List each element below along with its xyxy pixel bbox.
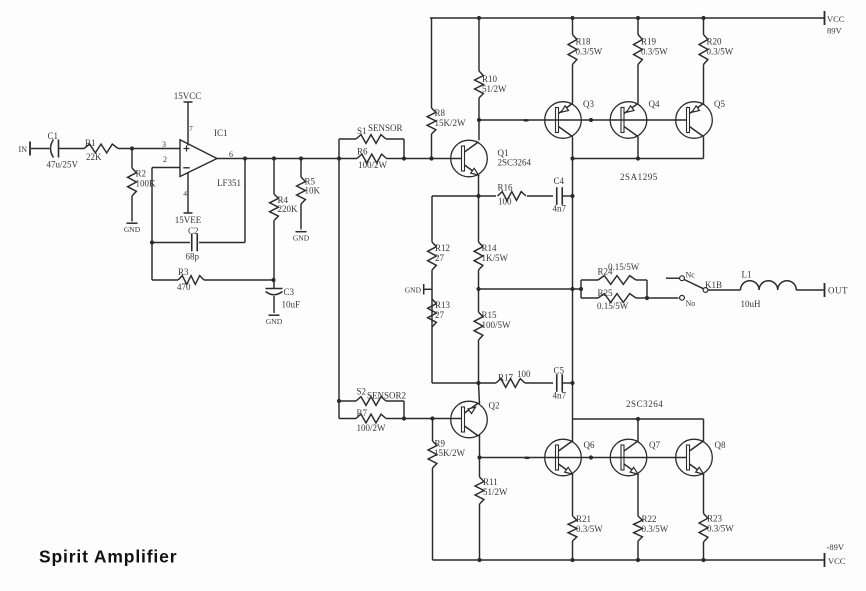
- node rail R11: [477, 558, 481, 562]
- svg-text:GND: GND: [405, 286, 422, 295]
- resistor R19: [634, 18, 669, 103]
- svg-text:100/2W: 100/2W: [357, 423, 387, 433]
- svg-text:15VCC: 15VCC: [174, 91, 202, 101]
- svg-text:Q4: Q4: [649, 99, 660, 109]
- wire Q1 emitter: [478, 175, 480, 196]
- svg-text:100/5W: 100/5W: [482, 320, 512, 330]
- wire: [59, 148, 85, 150]
- ground: [124, 223, 141, 234]
- svg-text:27: 27: [435, 310, 445, 320]
- svg-text:2: 2: [163, 155, 167, 164]
- resistor R23: [699, 474, 734, 560]
- node base: [589, 455, 593, 459]
- svg-text:47u/25V: 47u/25V: [47, 160, 79, 170]
- input terminal IN: [19, 142, 30, 156]
- svg-text:51/2W: 51/2W: [483, 487, 508, 497]
- node feedback: [150, 240, 154, 244]
- svg-text:Q8: Q8: [715, 440, 726, 450]
- resistor R1: [84, 138, 118, 162]
- svg-text:15K/2W: 15K/2W: [435, 118, 467, 128]
- node C4: [570, 194, 574, 198]
- svg-text:R22: R22: [642, 514, 657, 524]
- transistor Q4: [610, 99, 660, 138]
- resistor R9: [428, 419, 465, 561]
- resistor R8: [427, 18, 466, 159]
- wire Q2 emitter: [479, 383, 480, 404]
- pin 7 wire: [184, 102, 194, 146]
- node rail R20: [701, 16, 705, 20]
- svg-text:SENSOR2: SENSOR2: [367, 391, 406, 401]
- inductor L1: [741, 270, 797, 310]
- ground tap: [405, 270, 432, 383]
- op-amp U1 IC1: [180, 128, 241, 188]
- svg-text:0.15/5W: 0.15/5W: [608, 262, 640, 272]
- node R8 base: [429, 156, 433, 160]
- capacitor C1: [47, 131, 79, 170]
- svg-text:2SC3264: 2SC3264: [498, 158, 532, 168]
- svg-text:R12: R12: [435, 243, 450, 253]
- wire: [479, 382, 497, 384]
- node bus R22: [636, 417, 640, 421]
- wire sensor column: [338, 159, 340, 402]
- resistor R20: [699, 18, 734, 103]
- node collector base: [477, 118, 481, 122]
- svg-text:4n7: 4n7: [553, 204, 567, 214]
- svg-text:R16: R16: [498, 183, 514, 193]
- svg-text:C2: C2: [188, 226, 199, 236]
- capacitor C3: [266, 280, 301, 313]
- svg-text:7: 7: [189, 124, 193, 133]
- wire Q5 collector: [703, 137, 705, 159]
- svg-text:10K: 10K: [305, 186, 321, 196]
- svg-text:3: 3: [162, 140, 166, 149]
- resistor R3: [152, 267, 274, 292]
- node drive mid: [476, 287, 480, 291]
- wire: [527, 195, 553, 197]
- wire mid column: [572, 159, 574, 420]
- svg-text:No: No: [686, 299, 696, 308]
- resistor R12: [428, 196, 450, 270]
- wire lower bus: [573, 418, 704, 420]
- wire: [432, 382, 479, 384]
- svg-text:GND: GND: [266, 317, 283, 326]
- wire: [432, 195, 496, 197]
- svg-text:Q6: Q6: [584, 440, 595, 450]
- wire Q3 collector: [572, 137, 574, 159]
- svg-text:6: 6: [229, 150, 233, 159]
- node C5: [570, 381, 574, 385]
- terminal VCC -89V: [825, 542, 846, 567]
- svg-text:R7: R7: [357, 408, 368, 418]
- node box left: [579, 287, 583, 291]
- svg-text:VCC: VCC: [828, 556, 846, 566]
- node bus Q3: [570, 156, 574, 160]
- svg-text:470: 470: [177, 282, 191, 292]
- svg-text:0.3/5W: 0.3/5W: [576, 524, 603, 534]
- capacitor C5: [553, 366, 567, 401]
- wire -VCC rail: [433, 559, 825, 561]
- resistor R7: [339, 401, 404, 433]
- svg-text:Nc: Nc: [686, 271, 696, 280]
- svg-text:SENSOR: SENSOR: [368, 123, 403, 133]
- svg-text:22K: 22K: [86, 152, 102, 162]
- resistor R18: [568, 18, 603, 103]
- svg-text:Q2: Q2: [489, 401, 500, 411]
- wire Q8 collector: [703, 419, 705, 441]
- wire Q7 collector: [637, 419, 639, 441]
- wire output node: [479, 288, 582, 290]
- junction mark: [523, 119, 529, 122]
- switch K1B: [666, 271, 722, 309]
- resistor R10: [475, 18, 507, 140]
- resistor R4: [270, 159, 298, 281]
- ground: [266, 315, 283, 326]
- svg-text:4n7: 4n7: [553, 391, 567, 401]
- capacitor C4: [553, 176, 567, 214]
- svg-text:2SC3264: 2SC3264: [626, 399, 663, 409]
- svg-text:15K/2W: 15K/2W: [434, 448, 466, 458]
- svg-text:L1: L1: [742, 270, 752, 280]
- svg-text:R8: R8: [435, 108, 446, 118]
- resistor R17: [496, 369, 531, 387]
- svg-text:R3: R3: [178, 267, 189, 277]
- node R3 R4 C3: [271, 278, 275, 282]
- wire: [796, 289, 823, 291]
- wire base Q3 Q4 Q5: [479, 119, 687, 121]
- node box right: [645, 296, 649, 300]
- svg-text:LF351: LF351: [217, 178, 241, 188]
- wire: [562, 382, 573, 384]
- resistor R22: [634, 474, 669, 560]
- svg-text:R1: R1: [85, 138, 96, 148]
- node R15 R17: [476, 381, 480, 385]
- svg-text:S2: S2: [357, 387, 367, 397]
- svg-text:4: 4: [183, 189, 187, 198]
- svg-text:Q5: Q5: [714, 99, 725, 109]
- power 15VCC: [174, 91, 202, 101]
- svg-text:R10: R10: [482, 74, 498, 84]
- capacitor C2: [186, 226, 200, 262]
- svg-text:10uH: 10uH: [741, 299, 762, 309]
- node Q2 collector: [477, 455, 481, 459]
- wire Q6 collector: [572, 419, 574, 441]
- svg-text:68p: 68p: [186, 252, 200, 262]
- svg-text:100: 100: [498, 197, 512, 207]
- svg-text:R14: R14: [482, 243, 498, 253]
- svg-text:VCC: VCC: [827, 14, 845, 24]
- pin 6: [229, 150, 233, 159]
- wire: [199, 159, 245, 243]
- wire VCC rail: [430, 17, 824, 19]
- svg-text:27: 27: [435, 253, 445, 263]
- svg-text:OUT: OUT: [828, 286, 848, 296]
- resistor R16: [498, 183, 527, 207]
- switch S2 SENSOR2: [339, 387, 406, 419]
- svg-text:C4: C4: [554, 176, 565, 186]
- svg-text:Q1: Q1: [498, 148, 509, 158]
- svg-text:51/2W: 51/2W: [482, 84, 507, 94]
- wire Q2 collector: [479, 434, 481, 457]
- svg-text:R11: R11: [483, 477, 498, 487]
- wire: [31, 148, 50, 150]
- svg-text:R15: R15: [482, 310, 498, 320]
- transistor Q5: [676, 99, 726, 138]
- svg-text:10uF: 10uF: [282, 300, 301, 310]
- label 2SC3264: [626, 399, 663, 409]
- node rail R23: [701, 558, 705, 562]
- svg-text:0.3/5W: 0.3/5W: [642, 524, 669, 534]
- resistor R24: [581, 262, 647, 298]
- node S1 right: [402, 156, 406, 160]
- node rail R22: [636, 558, 640, 562]
- svg-text:-89V: -89V: [827, 542, 845, 552]
- transistor Q3: [545, 99, 595, 138]
- svg-text:Q7: Q7: [649, 440, 660, 450]
- wire Q2 base: [404, 418, 462, 420]
- svg-text:GND: GND: [293, 234, 310, 243]
- node base: [589, 118, 593, 122]
- svg-text:220K: 220K: [278, 204, 299, 214]
- node rail R18: [570, 16, 574, 20]
- svg-text:Q3: Q3: [583, 99, 594, 109]
- svg-text:C1: C1: [48, 131, 59, 141]
- wire Q4 collector: [637, 137, 639, 159]
- pin 4 wire: [183, 172, 192, 213]
- terminal OUT: [825, 283, 849, 297]
- svg-text:R23: R23: [707, 513, 723, 523]
- resistor R11: [475, 458, 508, 561]
- node rail R19: [636, 16, 640, 20]
- power 15VEE: [175, 215, 202, 225]
- transistor Q2: [451, 401, 500, 438]
- junction mark: [524, 457, 530, 460]
- svg-text:C5: C5: [554, 366, 565, 376]
- node R9 top: [430, 416, 434, 420]
- svg-text:R9: R9: [435, 439, 446, 449]
- svg-text:1K/5W: 1K/5W: [482, 253, 509, 263]
- node bus Q4: [636, 156, 640, 160]
- ground: [293, 232, 310, 243]
- svg-text:0.3/5W: 0.3/5W: [707, 47, 734, 57]
- switch S1 SENSOR: [339, 123, 404, 159]
- wire pin2: [152, 168, 180, 281]
- wire: [118, 148, 180, 150]
- wire output: [217, 158, 462, 160]
- transistor Q8: [676, 439, 726, 476]
- resistor R21: [568, 474, 603, 560]
- node mid column: [570, 287, 574, 291]
- wire: [708, 289, 741, 291]
- wire: [562, 195, 573, 197]
- resistor R6: [357, 147, 388, 171]
- svg-text:GND: GND: [124, 225, 141, 234]
- wire collector bus: [573, 158, 704, 160]
- svg-text:R19: R19: [641, 37, 657, 47]
- resistor R5: [297, 159, 321, 230]
- svg-text:0.3/5W: 0.3/5W: [576, 47, 603, 57]
- node S2 right: [402, 416, 406, 420]
- svg-text:R2: R2: [136, 169, 147, 179]
- resistor R25: [581, 280, 647, 311]
- svg-text:0.3/5W: 0.3/5W: [707, 523, 734, 533]
- pin 2: [163, 155, 167, 164]
- label 2SA1295: [620, 172, 658, 182]
- resistor R15: [474, 289, 511, 383]
- node out R5: [299, 156, 303, 160]
- svg-text:100: 100: [517, 369, 531, 379]
- svg-text:S1: S1: [357, 126, 367, 136]
- svg-text:IC1: IC1: [214, 128, 228, 138]
- wire base Q6 Q7 Q8: [480, 457, 688, 459]
- svg-text:R20: R20: [707, 37, 723, 47]
- svg-text:K1B: K1B: [705, 280, 722, 290]
- terminal VCC +89V: [825, 11, 845, 36]
- title Spirit Amplifier: [39, 547, 177, 567]
- resistor R13: [428, 299, 451, 327]
- svg-text:89V: 89V: [827, 26, 843, 36]
- svg-text:0.15/5W: 0.15/5W: [597, 301, 629, 311]
- wire: [647, 297, 679, 299]
- node out R4: [272, 156, 276, 160]
- resistor R14: [474, 196, 508, 289]
- svg-text:100K: 100K: [136, 179, 157, 189]
- svg-text:R21: R21: [576, 514, 591, 524]
- svg-text:C3: C3: [284, 287, 295, 297]
- transistor Q1: [451, 140, 532, 177]
- node input junction: [130, 146, 134, 150]
- svg-text:R17: R17: [498, 373, 514, 383]
- node out S1: [337, 156, 341, 160]
- node out C2: [243, 156, 247, 160]
- transistor Q7: [610, 439, 660, 476]
- svg-text:100/2W: 100/2W: [358, 160, 388, 170]
- node Q1 emitter: [476, 194, 480, 198]
- node rail R21: [570, 558, 574, 562]
- svg-text:Spirit Amplifier: Spirit Amplifier: [39, 547, 177, 567]
- svg-text:IN: IN: [19, 145, 28, 154]
- wire: [525, 382, 553, 384]
- svg-text:2SA1295: 2SA1295: [620, 172, 658, 182]
- pin 3: [162, 140, 166, 149]
- svg-text:R6: R6: [357, 147, 368, 157]
- transistor Q6: [545, 439, 595, 476]
- resistor R2: [128, 149, 156, 222]
- node rail R10: [477, 16, 481, 20]
- wire: [152, 242, 190, 244]
- svg-text:0.3/5W: 0.3/5W: [641, 47, 668, 57]
- svg-text:R25: R25: [598, 288, 614, 298]
- svg-text:R13: R13: [435, 300, 451, 310]
- svg-text:15VEE: 15VEE: [175, 215, 202, 225]
- node S2 left: [337, 399, 341, 403]
- svg-text:R18: R18: [576, 37, 592, 47]
